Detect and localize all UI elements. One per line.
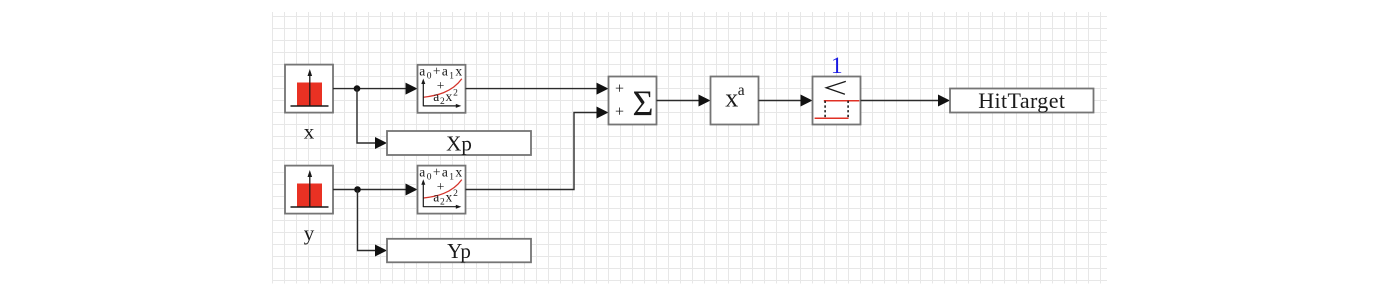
- source block X (histogram icon): [285, 65, 333, 113]
- node junction X: [354, 85, 361, 92]
- wire X source to XP fcn: [333, 83, 418, 95]
- wire XP fcn to sum input 1: [466, 83, 609, 95]
- svg-text:Xp: Xp: [446, 132, 472, 156]
- fcn block XP (polynomial a0+a1x+a2x^2): [418, 64, 466, 113]
- svg-text:+: +: [615, 104, 624, 121]
- block HitTarget: [950, 88, 1094, 113]
- wire junction Y down to Yp: [358, 190, 388, 257]
- fcn block YP (polynomial a0+a1x+a2x^2): [418, 164, 466, 213]
- sum block U1: [609, 77, 657, 125]
- svg-text:HitTarget: HitTarget: [978, 88, 1065, 113]
- source block Y (histogram icon): [285, 166, 333, 214]
- wire compare block to HitTarget: [861, 95, 951, 107]
- wire junction X down to Xp: [357, 89, 387, 149]
- node junction Y: [354, 186, 361, 193]
- wire YP fcn to sum input 2: [466, 107, 609, 190]
- wire power block to compare block: [759, 95, 813, 107]
- block Yp: [387, 239, 531, 263]
- wire sum to power block: [657, 95, 711, 107]
- power block x^a: [711, 77, 759, 125]
- svg-text:x: x: [304, 120, 315, 144]
- block Xp: [387, 131, 531, 156]
- svg-text:a: a: [738, 82, 745, 99]
- svg-text:Yp: Yp: [447, 239, 471, 263]
- svg-text:y: y: [304, 221, 315, 245]
- svg-text:1: 1: [831, 53, 843, 79]
- svg-text:x: x: [725, 84, 738, 113]
- compare block (less than 1, interval icon): [813, 77, 861, 125]
- wire Y source to YP fcn: [333, 184, 418, 196]
- svg-text:+: +: [615, 80, 624, 97]
- svg-text:Σ: Σ: [633, 83, 654, 123]
